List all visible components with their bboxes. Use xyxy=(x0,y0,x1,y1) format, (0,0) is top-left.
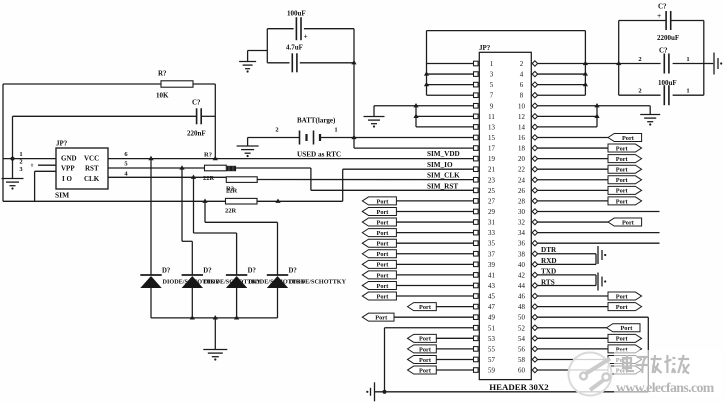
svg-text:Port: Port xyxy=(377,283,390,290)
wire pin3 left xyxy=(427,73,474,75)
wire pin50 right xyxy=(537,316,648,318)
wire net-A top-left vertical xyxy=(2,84,4,201)
port flag P57 xyxy=(408,355,437,363)
svg-text:DTR: DTR xyxy=(541,246,557,254)
svg-text:Port: Port xyxy=(419,304,432,311)
wire SIM pin1 GND xyxy=(3,151,56,159)
svg-text:Port: Port xyxy=(377,241,390,248)
svg-text:Port: Port xyxy=(377,293,390,300)
wire RXD xyxy=(537,257,596,265)
wire bank row3 right xyxy=(673,94,704,96)
junction rail d3 xyxy=(234,315,239,319)
svg-text:220nF: 220nF xyxy=(187,130,206,138)
svg-text:31: 31 xyxy=(488,220,495,227)
svg-text:15: 15 xyxy=(488,135,495,142)
svg-text:BATT(large): BATT(large) xyxy=(297,117,336,125)
svg-text:1: 1 xyxy=(19,151,22,158)
svg-text:Port: Port xyxy=(377,251,390,258)
wire bank gnd stub xyxy=(704,63,713,65)
junction rail gnd xyxy=(213,315,218,319)
svg-text:13: 13 xyxy=(488,124,495,131)
port flag P22 xyxy=(608,165,642,173)
wire pin22 right xyxy=(537,168,608,170)
svg-text:Port: Port xyxy=(616,198,629,205)
svg-text:24: 24 xyxy=(518,177,525,184)
wire 100uF row xyxy=(267,28,354,30)
svg-text:28: 28 xyxy=(518,198,525,205)
label SIM_RST xyxy=(427,183,458,191)
wire 10K top segment left xyxy=(3,83,161,85)
port flag P29 xyxy=(362,207,396,215)
port flag P47 xyxy=(408,303,437,311)
port flag P53 xyxy=(408,334,437,342)
svg-text:11: 11 xyxy=(488,114,495,121)
svg-text:SIM_VDD: SIM_VDD xyxy=(427,150,460,158)
svg-text:4.7uF: 4.7uF xyxy=(286,44,303,52)
wire battery left xyxy=(248,137,300,139)
svg-text:R?: R? xyxy=(158,70,167,78)
wire pin4 right xyxy=(537,73,585,75)
svg-text:10K: 10K xyxy=(156,92,169,100)
wire loop top xyxy=(427,30,586,32)
junction diode3/CLK xyxy=(191,175,196,179)
wire CLK stub xyxy=(108,176,226,178)
wire pin41 left xyxy=(396,274,473,276)
junction 4.7uF/rail xyxy=(351,60,356,64)
svg-text:54: 54 xyxy=(518,336,525,343)
svg-text:D?: D? xyxy=(289,268,297,275)
junction loop R2 xyxy=(583,82,588,86)
svg-text:2: 2 xyxy=(275,127,278,134)
wire drop to pin17 xyxy=(354,138,474,149)
pin number 5 xyxy=(124,160,128,167)
wire pin1 left xyxy=(427,63,474,65)
battery BT1 xyxy=(275,117,341,159)
diode D1 xyxy=(140,268,220,318)
wire pin47 left xyxy=(436,306,473,308)
svg-text:38: 38 xyxy=(518,251,525,258)
wire 10K top segment right xyxy=(193,83,215,85)
wire pin48 right xyxy=(537,306,608,308)
wire bank row2 right xyxy=(673,63,704,65)
value smudge R2 xyxy=(227,166,236,171)
svg-text:22: 22 xyxy=(518,167,525,174)
wire TXD xyxy=(537,268,596,276)
svg-text:1: 1 xyxy=(686,88,689,95)
wire 220nF segment right xyxy=(202,115,216,117)
wire pin46 right xyxy=(537,295,608,297)
wire pin11 left xyxy=(416,115,474,117)
wire pin18 right xyxy=(537,147,608,149)
junction pin2/loop xyxy=(583,61,588,65)
port flag P52 xyxy=(607,324,640,332)
svg-text:14: 14 xyxy=(518,124,525,131)
wire pin32 right xyxy=(537,221,608,223)
wire cap block right rail xyxy=(353,29,355,138)
svg-text:35: 35 xyxy=(488,241,495,248)
wire r-gnd vertical xyxy=(596,106,598,127)
port flag P41 xyxy=(362,271,396,279)
wire bank row1 xyxy=(619,20,704,22)
connector JP1 SIM box xyxy=(55,140,108,200)
label SIM_IO xyxy=(427,161,453,169)
port flag P60 xyxy=(608,366,642,374)
wire txd-rts vert xyxy=(595,275,597,286)
svg-text:HEADER 30X2: HEADER 30X2 xyxy=(489,382,549,392)
wire IO bottom line left xyxy=(3,200,226,202)
svg-text:2: 2 xyxy=(19,159,22,166)
svg-text:VPP: VPP xyxy=(61,165,75,173)
wire pin58 right xyxy=(537,358,608,360)
wire pin2 right xyxy=(537,63,619,65)
port flag P43 xyxy=(362,281,396,289)
svg-text:Port: Port xyxy=(419,346,432,353)
resistor R4 22R xyxy=(225,198,257,214)
wire pin35 left xyxy=(396,242,473,244)
wire bank row2 left xyxy=(619,63,661,65)
svg-text:Port: Port xyxy=(622,135,635,142)
svg-text:Port: Port xyxy=(616,167,629,174)
port flag P31 xyxy=(362,218,396,226)
junction IO-278 xyxy=(275,199,280,203)
svg-text:Port: Port xyxy=(377,219,390,226)
ground GND4 mid xyxy=(364,106,385,128)
svg-text:33: 33 xyxy=(488,230,495,237)
side ground SG1 xyxy=(598,246,606,264)
wire pin49 left xyxy=(394,316,474,318)
svg-text:16: 16 xyxy=(518,135,525,142)
side ground SG2 xyxy=(598,273,606,291)
wire gndA stub xyxy=(248,50,268,52)
svg-text:25: 25 xyxy=(488,188,495,195)
junction rail d2 xyxy=(190,315,195,319)
wire pin5 left xyxy=(427,84,474,86)
svg-text:5: 5 xyxy=(490,82,494,89)
wire SIM pin2 VPP stub xyxy=(19,159,56,169)
svg-text:59: 59 xyxy=(488,368,495,375)
svg-text:2200uF: 2200uF xyxy=(657,34,679,42)
svg-text:45: 45 xyxy=(488,294,495,301)
svg-text:Port: Port xyxy=(419,367,432,374)
wire bank left rail xyxy=(618,21,620,96)
svg-text:Port: Port xyxy=(419,357,432,364)
port flag P56 xyxy=(608,345,642,353)
wire pin45 left xyxy=(396,295,473,297)
svg-text:Port: Port xyxy=(616,188,629,195)
wire pin36 right xyxy=(537,242,659,244)
wire pin28 right xyxy=(537,200,608,202)
svg-text:USED as RTC: USED as RTC xyxy=(297,151,341,159)
svg-text:23: 23 xyxy=(488,177,495,184)
pin number 4 xyxy=(124,170,128,177)
wire RST jog xyxy=(311,168,474,190)
wire pin27 left xyxy=(396,200,473,202)
svg-text:52: 52 xyxy=(518,325,525,332)
svg-text:1: 1 xyxy=(334,127,337,134)
svg-text:+: + xyxy=(304,32,308,41)
svg-text:GND: GND xyxy=(61,155,77,163)
svg-text:D?: D? xyxy=(162,268,170,275)
wire RST mid xyxy=(236,167,311,169)
wire pin55 left xyxy=(436,348,473,350)
wire pin6 right xyxy=(537,84,585,86)
wire right drop xyxy=(647,317,649,392)
resistor R2 22R xyxy=(203,152,226,183)
port flag P16 xyxy=(608,133,642,141)
port flag P28 xyxy=(608,197,642,205)
diode D2 xyxy=(182,268,262,318)
wire pin12 right xyxy=(537,115,597,117)
wire pin51 drop xyxy=(384,328,386,392)
resistor R3 22R xyxy=(226,177,257,195)
svg-text:100uF: 100uF xyxy=(658,79,677,87)
port flag P35 xyxy=(362,239,396,247)
port flag P39 xyxy=(362,260,396,268)
svg-text:D?: D? xyxy=(203,268,211,275)
wire bank right rail xyxy=(703,21,705,96)
svg-text:37: 37 xyxy=(488,251,495,258)
svg-text:1: 1 xyxy=(686,56,689,63)
wire pin60 right xyxy=(537,369,608,371)
wire RTS xyxy=(537,278,596,286)
port flag P46 xyxy=(608,292,642,300)
wire loop left vertical xyxy=(426,31,428,96)
wire pin52 right xyxy=(537,327,606,329)
wire SIM pin3 IO stub xyxy=(19,166,56,173)
svg-text:C?: C? xyxy=(192,99,201,107)
wire IO bottom right xyxy=(257,200,343,202)
svg-text:Port: Port xyxy=(377,230,390,237)
svg-text:Port: Port xyxy=(620,325,633,332)
wire pin37 left xyxy=(396,253,473,255)
svg-text:Port: Port xyxy=(616,156,629,163)
svg-text:22R: 22R xyxy=(226,188,238,195)
wire gnd drop vertical xyxy=(12,116,14,158)
svg-text:TXD: TXD xyxy=(541,268,556,276)
diode D4 xyxy=(267,268,347,318)
wire diode4 drop xyxy=(205,201,278,275)
wire pin10 right xyxy=(537,105,650,107)
wire pin29 left xyxy=(396,210,473,212)
svg-text:36: 36 xyxy=(518,241,525,248)
svg-text:26: 26 xyxy=(518,188,525,195)
diode D3 xyxy=(226,268,306,318)
svg-text:29: 29 xyxy=(488,209,495,216)
svg-text:Port: Port xyxy=(616,293,629,300)
svg-text:22R: 22R xyxy=(203,175,215,182)
svg-text:JP?: JP? xyxy=(56,140,68,148)
junction r10a xyxy=(594,103,599,107)
junction VCC/215 xyxy=(213,156,218,160)
svg-text:Port: Port xyxy=(616,304,629,311)
svg-text:9: 9 xyxy=(490,103,494,110)
svg-text:JP?: JP? xyxy=(479,44,491,52)
wire pin33 left xyxy=(396,232,473,234)
wire right vertical to VCC xyxy=(214,84,216,159)
wire pin7 left xyxy=(427,94,474,96)
svg-text:41: 41 xyxy=(488,272,495,279)
svg-text:30: 30 xyxy=(518,209,525,216)
svg-text:4: 4 xyxy=(520,72,524,79)
side ground SG3 bottom left xyxy=(366,382,374,401)
svg-text:43: 43 xyxy=(488,283,495,290)
svg-text:CLK: CLK xyxy=(84,175,100,183)
wire pin51 left xyxy=(385,327,474,329)
junction d4/IO xyxy=(202,199,207,203)
wire 4.7uF row xyxy=(267,62,354,64)
header pin numbers xyxy=(488,61,525,375)
svg-text:19: 19 xyxy=(488,156,495,163)
svg-text:55: 55 xyxy=(488,346,495,353)
wire pin9 left xyxy=(416,105,474,107)
svg-text:49: 49 xyxy=(488,315,495,322)
svg-text:21: 21 xyxy=(488,167,495,174)
svg-text:27: 27 xyxy=(488,198,495,205)
port flag P49 xyxy=(362,313,394,321)
wire pin59 left xyxy=(436,369,473,371)
wire diode1 drop xyxy=(150,159,152,275)
svg-text:RST: RST xyxy=(85,165,99,173)
port flag P24 xyxy=(608,176,642,184)
junction g4b xyxy=(413,114,418,118)
port flag P33 xyxy=(362,229,396,237)
wire cap block left rail xyxy=(266,29,268,63)
svg-text:RXD: RXD xyxy=(541,257,557,265)
wire pin39 left xyxy=(396,263,473,265)
capacitor C2 100uF xyxy=(287,10,308,41)
port flag P54 xyxy=(608,334,642,342)
wire pin8 right xyxy=(537,94,585,96)
svg-text:3: 3 xyxy=(490,72,494,79)
junction battery/354 xyxy=(351,135,356,139)
capacitor C1 220nF xyxy=(187,99,206,138)
label HEADER 30X2 xyxy=(489,382,549,392)
junction g4a xyxy=(413,103,418,107)
svg-text:Port: Port xyxy=(419,336,432,343)
port flag P59 xyxy=(408,366,437,374)
ground GND2 battery xyxy=(237,138,259,158)
svg-text:32: 32 xyxy=(518,220,525,227)
junction diode2/RST xyxy=(179,165,184,169)
port flag P58 xyxy=(608,355,642,363)
junction loop L2 xyxy=(424,82,429,86)
capacitor C4 2200uF xyxy=(657,3,679,43)
junction pin51/bottom xyxy=(382,390,386,394)
wire dtr-rxd vert xyxy=(595,254,597,265)
pin number 6 xyxy=(124,151,128,158)
ground GND3 under pin1 xyxy=(2,159,24,190)
wire pin57 left xyxy=(436,358,473,360)
wire IO drop xyxy=(34,171,36,201)
wire pin26 right xyxy=(537,189,608,191)
svg-text:Port: Port xyxy=(377,272,390,279)
ground GND1 capblock xyxy=(239,51,256,73)
junction r12 xyxy=(594,114,599,118)
resistor R1 10K xyxy=(156,70,193,100)
svg-text:SIM: SIM xyxy=(55,191,69,200)
wire diode2 drop xyxy=(182,168,192,275)
port flag P26 xyxy=(608,186,642,194)
wire pin13 left xyxy=(416,126,474,128)
wire battery to pin15 xyxy=(320,137,474,139)
junction bank L xyxy=(616,61,621,65)
svg-text:17: 17 xyxy=(488,146,495,153)
wire pin56 right xyxy=(537,348,608,350)
watermark elecfans logo xyxy=(569,350,723,396)
wire 220nF segment left xyxy=(13,115,197,117)
port flag P45 xyxy=(362,292,396,300)
wire pin20 right xyxy=(537,158,608,160)
svg-text:7: 7 xyxy=(490,93,494,100)
svg-text:D?: D? xyxy=(248,268,256,275)
svg-text:10: 10 xyxy=(518,103,525,110)
svg-text:39: 39 xyxy=(488,262,495,269)
wire pin53 left xyxy=(436,337,473,339)
svg-text:2: 2 xyxy=(638,56,641,63)
label SIM_CLK xyxy=(427,172,460,180)
side ground SG0 top right xyxy=(714,53,722,75)
label SIM_VDD xyxy=(427,150,460,158)
svg-text:Port: Port xyxy=(377,262,390,269)
wire gnd4 vertical xyxy=(415,106,417,127)
svg-text:20: 20 xyxy=(518,156,525,163)
port flag P55 xyxy=(408,345,437,353)
svg-text:www.elecfans.com: www.elecfans.com xyxy=(616,380,715,395)
ground GND5 diode rail xyxy=(203,318,227,361)
svg-text:12: 12 xyxy=(518,114,525,121)
svg-text:51: 51 xyxy=(488,325,495,332)
svg-text:SIM_RST: SIM_RST xyxy=(427,183,458,191)
svg-text:Port: Port xyxy=(622,219,635,226)
svg-text:DIODE/SCHOTTKY: DIODE/SCHOTTKY xyxy=(289,279,347,286)
svg-text:60: 60 xyxy=(518,368,525,375)
svg-text:8: 8 xyxy=(520,93,524,100)
svg-text:6: 6 xyxy=(520,82,524,89)
junction diode1/VCC xyxy=(148,156,153,160)
capacitor C6 xyxy=(638,85,689,105)
port flag P18 xyxy=(608,144,642,152)
wire gnd4 horizontal xyxy=(374,105,416,107)
wire IO riser xyxy=(343,169,474,201)
svg-text:Port: Port xyxy=(616,336,629,343)
svg-text:47: 47 xyxy=(488,304,495,311)
svg-text:Port: Port xyxy=(616,145,629,152)
junction loop L1 xyxy=(424,71,429,75)
wire bank row3 left xyxy=(619,94,661,96)
wire loop right vertical xyxy=(584,31,586,96)
svg-text:I O: I O xyxy=(62,175,72,183)
svg-text:1: 1 xyxy=(490,61,494,68)
svg-text:22R: 22R xyxy=(225,208,237,215)
wire bottom long line xyxy=(375,391,649,393)
svg-text:R?: R? xyxy=(204,152,212,159)
svg-text:100uF: 100uF xyxy=(287,10,306,18)
wire DTR xyxy=(537,246,596,254)
wire pin30 right xyxy=(537,210,659,212)
svg-text:50: 50 xyxy=(518,315,525,322)
svg-text:48: 48 xyxy=(518,304,525,311)
svg-text:Port: Port xyxy=(377,198,390,205)
capacitor C3 4.7uF xyxy=(286,44,303,73)
svg-text:2: 2 xyxy=(638,88,641,95)
svg-text:VCC: VCC xyxy=(84,155,99,163)
svg-text:34: 34 xyxy=(518,230,525,237)
svg-text:SIM_IO: SIM_IO xyxy=(427,161,453,169)
svg-text:SIM_CLK: SIM_CLK xyxy=(427,172,460,180)
wire net SIM_VDD xyxy=(108,158,474,160)
svg-text:Port: Port xyxy=(377,209,390,216)
svg-text:40: 40 xyxy=(518,262,525,269)
